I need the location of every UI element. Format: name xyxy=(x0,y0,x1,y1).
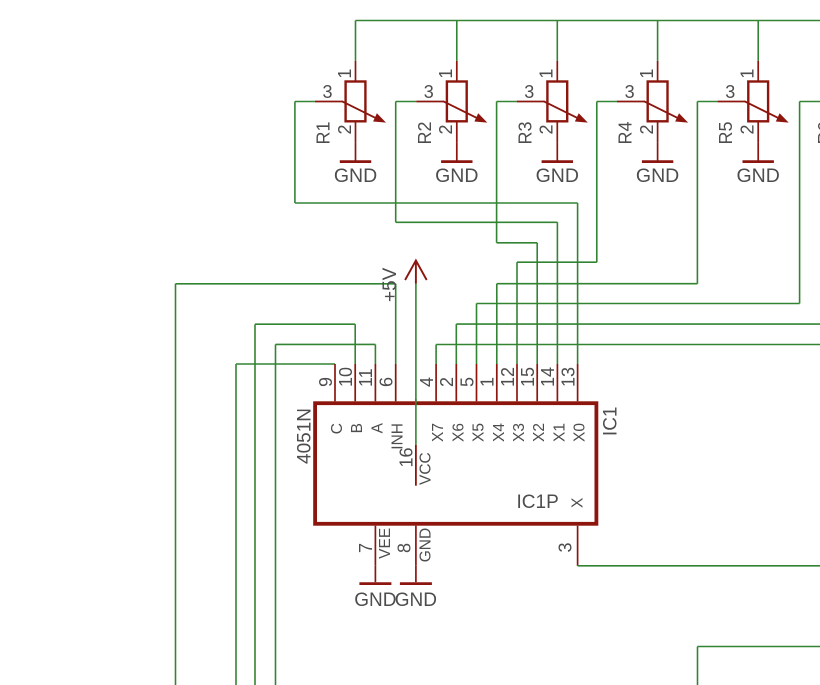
svg-text:R6: R6 xyxy=(815,121,820,144)
IC1 pin name VCC xyxy=(418,452,435,485)
svg-text:X: X xyxy=(569,497,586,508)
R4 pin number 2 xyxy=(637,125,657,135)
potentiometer R5 xyxy=(718,61,789,143)
label R4 xyxy=(616,121,636,144)
svg-text:14: 14 xyxy=(538,367,558,387)
op-amp IC1 4051N multiplexer body xyxy=(315,403,596,524)
svg-text:B: B xyxy=(349,423,366,433)
IC1 pin 8 (GND) stub xyxy=(415,526,417,566)
svg-text:VCC: VCC xyxy=(418,452,435,485)
label 4051N (value) xyxy=(295,408,316,464)
ground GND (R3) xyxy=(536,143,579,187)
wire net B (pin 10) to left bus xyxy=(255,324,355,685)
svg-text:1: 1 xyxy=(478,377,498,387)
svg-text:1: 1 xyxy=(537,69,557,79)
svg-text:C: C xyxy=(329,423,346,434)
IC1 pin name X2 xyxy=(531,423,548,442)
IC1 pin number 11 xyxy=(356,368,376,387)
IC1 pin number 4 xyxy=(417,377,437,387)
IC1 pin number 5 xyxy=(457,377,477,387)
svg-text:3: 3 xyxy=(725,82,735,102)
ground GND (R1) xyxy=(334,143,377,187)
svg-text:16: 16 xyxy=(397,448,417,468)
label R3 xyxy=(515,121,535,144)
wire R3 pin3 loop xyxy=(497,102,517,243)
svg-text:3: 3 xyxy=(524,82,534,102)
R5 pin number 2 xyxy=(738,125,758,135)
svg-text:5: 5 xyxy=(457,377,477,387)
svg-text:2: 2 xyxy=(335,125,355,135)
IC1 pin 14 (X1) stub xyxy=(556,364,558,401)
svg-text:GND: GND xyxy=(737,165,780,187)
svg-text:VEE: VEE xyxy=(377,528,394,559)
IC1 pin 2 (X6) stub xyxy=(455,364,457,401)
svg-text:13: 13 xyxy=(558,367,578,387)
wire net bottom-right from edge xyxy=(698,647,820,685)
svg-text:15: 15 xyxy=(518,367,538,387)
svg-text:9: 9 xyxy=(316,377,336,387)
wire R4 pin3 loop xyxy=(597,102,617,263)
IC1 pin name X6 xyxy=(450,423,467,442)
svg-text:11: 11 xyxy=(356,368,376,387)
label R1 xyxy=(314,121,334,144)
label R2 xyxy=(415,121,435,144)
wire net X6 feeder to right edge xyxy=(456,324,820,364)
ground GND (IC1 GND) xyxy=(395,566,437,611)
R5 pin number 3 xyxy=(725,82,735,102)
svg-text:R2: R2 xyxy=(415,121,435,144)
IC1 pin 6 (INH) stub xyxy=(395,364,397,401)
R1 pin number 3 xyxy=(322,82,332,102)
wire R2 pin3 loop xyxy=(396,102,417,223)
IC1 pin name GND xyxy=(418,528,435,562)
svg-text:10: 10 xyxy=(336,367,356,387)
svg-text:3: 3 xyxy=(625,82,635,102)
svg-text:2: 2 xyxy=(436,125,456,135)
svg-text:1: 1 xyxy=(436,69,456,79)
svg-text:GND: GND xyxy=(354,590,396,611)
IC1 pin name X4 xyxy=(491,423,508,442)
svg-text:1: 1 xyxy=(335,69,355,79)
IC1 pin name X5 xyxy=(471,423,488,442)
svg-text:X3: X3 xyxy=(511,423,528,442)
ground GND (R2) xyxy=(435,143,478,187)
svg-text:12: 12 xyxy=(498,367,518,387)
svg-text:A: A xyxy=(369,422,386,433)
IC1 pin 9 (C) stub xyxy=(334,364,336,401)
wire R1 pin3 loop xyxy=(295,102,315,204)
IC1 pin 7 (VEE) stub xyxy=(374,526,376,566)
svg-text:1: 1 xyxy=(637,69,657,79)
svg-text:GND: GND xyxy=(636,165,679,187)
IC1 pin 4 (X7) stub xyxy=(435,364,437,401)
IC1 pin number 7 xyxy=(356,543,376,553)
potentiometer R2 xyxy=(416,61,487,143)
wire net R6-X5 feeder xyxy=(477,304,800,365)
wire net A (pin 11) to left bus xyxy=(276,344,376,685)
svg-text:7: 7 xyxy=(356,543,376,553)
svg-text:3: 3 xyxy=(424,82,434,102)
IC1 pin name A xyxy=(369,422,386,433)
ground GND (R4) xyxy=(636,143,679,187)
label IC1P gate xyxy=(517,492,559,513)
wire net R3-X2 feeder xyxy=(497,243,538,364)
IC1 pin name X3 xyxy=(511,423,528,442)
svg-text:8: 8 xyxy=(394,543,414,553)
svg-text:+5V: +5V xyxy=(380,267,401,302)
IC1 pin number 1 xyxy=(478,377,498,387)
svg-text:INH: INH xyxy=(390,423,407,450)
wire R2 pin1 to +5V rail xyxy=(456,21,458,61)
potentiometer R1 xyxy=(315,61,386,143)
label +5V xyxy=(380,267,401,302)
wire R3 pin1 to +5V rail xyxy=(556,21,558,61)
R2 pin number 2 xyxy=(436,125,456,135)
wire R4 pin1 to +5V rail xyxy=(657,21,659,61)
IC1 pin 1 (X4) stub xyxy=(496,364,498,401)
svg-text:IC1P: IC1P xyxy=(517,492,559,513)
svg-text:2: 2 xyxy=(437,377,457,387)
svg-text:R5: R5 xyxy=(716,121,736,144)
IC1 pin name X (common) xyxy=(569,497,586,508)
IC1 pin 12 (X3) stub xyxy=(516,364,518,401)
label R6 (partial at edge) xyxy=(815,121,820,144)
svg-text:1: 1 xyxy=(738,69,758,79)
ground GND (R5) xyxy=(737,143,780,187)
svg-text:GND: GND xyxy=(418,528,435,562)
wire +5V to VCC pin 16 xyxy=(415,284,417,402)
R4 pin number 1 xyxy=(637,69,657,79)
IC1 pin name B xyxy=(349,423,366,433)
wire R5 pin1 to +5V rail xyxy=(757,21,759,61)
svg-text:R4: R4 xyxy=(616,121,636,144)
svg-text:2: 2 xyxy=(738,125,758,135)
IC1 pin number 16 xyxy=(397,448,417,468)
R5 pin number 1 xyxy=(738,69,758,79)
svg-text:GND: GND xyxy=(334,165,377,187)
wire +5V top rail xyxy=(356,20,820,22)
label R5 xyxy=(716,121,736,144)
wire R6 pin3 loop xyxy=(800,102,820,304)
IC1 pin 13 (X0) stub xyxy=(577,364,579,401)
IC1 pin name X0 xyxy=(572,423,589,442)
R1 pin number 2 xyxy=(335,125,355,135)
IC1 pin number 12 xyxy=(498,367,518,387)
IC1 pin name C xyxy=(329,423,346,434)
svg-text:4: 4 xyxy=(417,377,437,387)
svg-text:6: 6 xyxy=(377,377,397,387)
IC1 pin 5 (X5) stub xyxy=(476,364,478,401)
svg-text:4051N: 4051N xyxy=(295,408,316,464)
wire net C (pin 9) to left bus xyxy=(236,364,335,685)
wire net X output to right edge xyxy=(578,565,820,567)
R4 pin number 3 xyxy=(625,82,635,102)
R3 pin number 2 xyxy=(537,125,557,135)
IC1 pin 3 (X out) stub xyxy=(577,526,579,566)
svg-text:GND: GND xyxy=(536,165,579,187)
IC1 pin 16 (VCC) inner pin line xyxy=(415,445,417,486)
potentiometer R3 xyxy=(517,61,588,143)
svg-text:X7: X7 xyxy=(430,423,447,442)
IC1 pin number 9 xyxy=(316,377,336,387)
wire net R5-X4 feeder xyxy=(497,284,698,364)
R1 pin number 1 xyxy=(335,69,355,79)
supply +5V arrow symbol xyxy=(405,261,427,284)
IC1 pin name X7 xyxy=(430,423,447,442)
IC1 pin name X1 xyxy=(551,423,568,442)
wire net X7 feeder to right edge xyxy=(436,345,820,365)
IC1 pin number 14 xyxy=(538,367,558,387)
svg-text:2: 2 xyxy=(637,125,657,135)
wire net INH (pin 6) to left bus xyxy=(176,284,396,685)
svg-text:GND: GND xyxy=(435,165,478,187)
IC1 pin name INH xyxy=(390,423,407,450)
svg-text:2: 2 xyxy=(537,125,557,135)
R2 pin number 1 xyxy=(436,69,456,79)
IC1 pin number 2 xyxy=(437,377,457,387)
IC1 pin number 13 xyxy=(558,367,578,387)
wire R5 pin3 loop xyxy=(697,102,717,284)
IC1 pin name VEE xyxy=(377,528,394,559)
svg-text:R1: R1 xyxy=(314,121,334,144)
svg-text:GND: GND xyxy=(395,590,437,611)
IC1 pin 11 (A) stub xyxy=(374,364,376,401)
R3 pin number 1 xyxy=(537,69,557,79)
wire +5V into VCC pin 16 (crosses border) xyxy=(415,399,417,445)
svg-text:3: 3 xyxy=(322,82,332,102)
wire net R2-X1 feeder xyxy=(396,222,558,364)
IC1 pin number 10 xyxy=(336,367,356,387)
IC1 pin number 6 xyxy=(377,377,397,387)
IC1 pin 10 (B) stub xyxy=(354,364,356,401)
svg-text:X5: X5 xyxy=(471,423,488,442)
wire net R1-X0 feeder xyxy=(295,203,578,364)
svg-text:X4: X4 xyxy=(491,423,508,442)
ground GND (IC1 VEE) xyxy=(354,566,396,611)
svg-text:X1: X1 xyxy=(551,423,568,442)
svg-text:X6: X6 xyxy=(450,423,467,442)
svg-text:3: 3 xyxy=(555,543,575,553)
label IC1 (name) xyxy=(601,407,622,437)
svg-text:R3: R3 xyxy=(515,121,535,144)
IC1 pin number 8 xyxy=(394,543,414,553)
R2 pin number 3 xyxy=(424,82,434,102)
svg-text:X2: X2 xyxy=(531,423,548,442)
svg-text:X0: X0 xyxy=(572,423,589,442)
IC1 pin number 15 xyxy=(518,367,538,387)
svg-text:IC1: IC1 xyxy=(601,407,622,437)
IC1 pin 15 (X2) stub xyxy=(536,364,538,401)
wire net R4-X3 feeder xyxy=(517,262,597,364)
R3 pin number 3 xyxy=(524,82,534,102)
potentiometer R4 xyxy=(617,61,688,143)
wire R1 pin1 to +5V rail xyxy=(355,21,357,61)
IC1 pin number 3 xyxy=(555,543,575,553)
